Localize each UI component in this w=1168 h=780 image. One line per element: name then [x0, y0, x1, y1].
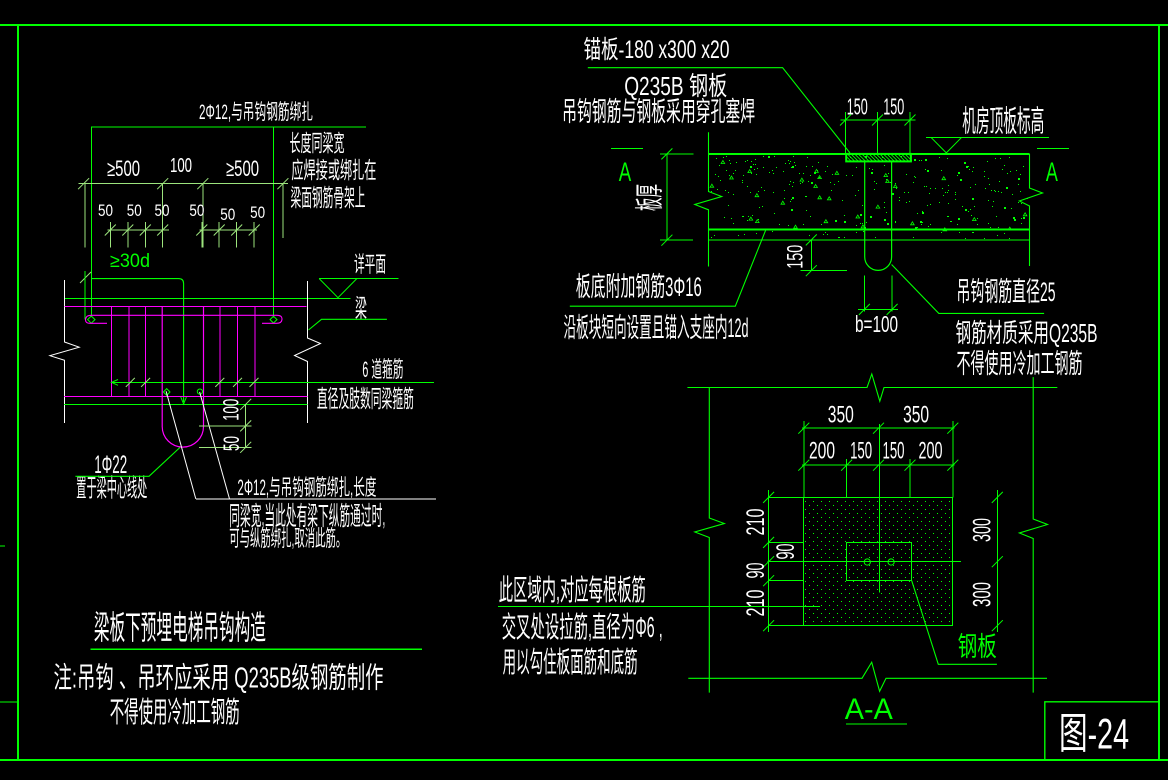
extension line — [845, 112, 847, 154]
svg-text:100: 100 — [219, 399, 244, 421]
svg-text:350: 350 — [903, 402, 929, 429]
svg-text:板厚: 板厚 — [633, 184, 666, 211]
leader tick — [141, 378, 150, 387]
white leader line 1 — [166, 391, 196, 499]
hook dim tick — [240, 399, 251, 410]
beam bottom longitudinal bar — [64, 395, 307, 397]
dimension tick — [249, 225, 260, 236]
leader line 6道箍筋 — [112, 381, 435, 383]
dim tick — [806, 234, 817, 245]
hook 1Φ22 U-shape — [162, 306, 203, 447]
extension line — [84, 184, 86, 248]
dim tick — [887, 304, 898, 315]
svg-text:沿板块短向设置且锚入支座内12d: 沿板块短向设置且锚入支座内12d — [564, 313, 749, 343]
leader tick — [233, 378, 242, 387]
stirrup leg — [111, 306, 113, 396]
svg-text:200: 200 — [919, 438, 943, 465]
plan square top edge ext — [769, 496, 804, 498]
extension line — [202, 184, 204, 248]
svg-text:210: 210 — [742, 590, 770, 617]
drawing frame top border — [0, 24, 1168, 26]
svg-text:90: 90 — [772, 544, 800, 560]
section symbol line — [319, 278, 398, 280]
svg-text:150: 150 — [883, 94, 904, 120]
beam top line (slab soffit) — [64, 297, 351, 299]
slab thickness tick line top — [660, 153, 693, 155]
beam left edge white — [50, 280, 79, 423]
title underline — [90, 648, 422, 650]
embed dim line — [810, 240, 812, 271]
dim tick — [905, 460, 916, 471]
dim tick — [841, 460, 852, 471]
svg-text:50: 50 — [98, 201, 113, 220]
dimension tick — [122, 225, 133, 236]
extension line — [952, 421, 954, 497]
svg-text:150: 150 — [883, 438, 905, 465]
plan right dim line — [996, 490, 998, 632]
svg-text:长度同梁宽: 长度同梁宽 — [290, 130, 345, 156]
dim tick — [798, 423, 809, 434]
b dim extension 2 — [891, 276, 893, 312]
drawing frame right border — [1158, 25, 1160, 760]
leader 1Φ22 — [75, 448, 179, 477]
svg-text:不得使用冷加工钢筋: 不得使用冷加工钢筋 — [110, 696, 240, 729]
added rebar line 3Φ16 — [709, 239, 1030, 241]
plan dim line 350-350 — [802, 427, 954, 429]
concrete speckle texture — [710, 156, 1028, 239]
section mark line right — [1037, 147, 1069, 149]
dim line 150-150 — [840, 119, 915, 121]
leader tick — [215, 378, 224, 387]
svg-text:注:吊钩 、吊环应采用 Q235B级钢筋制作: 注:吊钩 、吊环应采用 Q235B级钢筋制作 — [54, 662, 384, 695]
leader line 此区域内 — [498, 606, 820, 608]
svg-text:可与纵筋绑扎,取消此筋。: 可与纵筋绑扎,取消此筋。 — [229, 526, 346, 551]
svg-text:50: 50 — [127, 201, 142, 220]
dim tick — [763, 620, 774, 631]
svg-text:300: 300 — [968, 518, 996, 542]
svg-text:150: 150 — [782, 245, 807, 269]
slab right edge with break — [1019, 154, 1042, 266]
dim tick — [661, 148, 672, 159]
beam right edge white — [295, 281, 321, 423]
svg-text:50: 50 — [250, 203, 265, 222]
b dim extension 1 — [863, 276, 865, 312]
dimension line 50x3 right — [200, 229, 257, 231]
dim tick — [859, 304, 870, 315]
dimension line ≥500/100/≥500 — [79, 183, 289, 185]
extension line — [109, 222, 111, 248]
dim tick — [763, 556, 774, 567]
plan centre vertical axis — [878, 424, 880, 592]
stirrup leg — [128, 306, 130, 396]
slab top line — [709, 153, 1030, 155]
right hook bar end diamond — [270, 316, 277, 323]
plan dim line 200-150-150-200 — [802, 464, 954, 466]
svg-text:此区域内,对应每根板筋: 此区域内,对应每根板筋 — [499, 574, 646, 607]
short bar extension — [84, 271, 86, 320]
tick at bar start — [80, 272, 91, 283]
dim tick — [947, 460, 958, 471]
dim tick — [763, 492, 774, 503]
plan top break line — [687, 374, 1057, 401]
hook vertical dim line — [245, 404, 247, 447]
svg-text:不得使用冷加工钢筋: 不得使用冷加工钢筋 — [957, 349, 1083, 379]
marker diamond on hook leg — [163, 389, 170, 396]
slab thickness tick line bottom — [660, 239, 693, 241]
inner anchor plate rect — [847, 543, 912, 581]
dimension tick — [78, 178, 89, 189]
dimension tick — [231, 225, 242, 236]
dim tick — [763, 537, 774, 548]
dimension tick — [196, 225, 207, 236]
svg-text:直径及肢数同梁箍筋: 直径及肢数同梁箍筋 — [317, 386, 414, 413]
svg-text:梁面钢筋骨架上: 梁面钢筋骨架上 — [291, 185, 366, 212]
svg-text:2Φ12,与吊钩钢筋绑扎,长度: 2Φ12,与吊钩钢筋绑扎,长度 — [237, 475, 376, 500]
dimension tick — [197, 178, 208, 189]
svg-text:≥30d: ≥30d — [110, 251, 150, 272]
extension line — [162, 184, 164, 248]
title block divider at left edge — [0, 701, 18, 703]
leader 钢板 — [912, 581, 997, 665]
dimension line 50x3 left — [107, 229, 169, 231]
extension line — [909, 459, 911, 497]
extension line — [127, 222, 129, 248]
arrowhead on bar — [181, 397, 187, 405]
left edge tick — [0, 545, 5, 547]
extension line — [282, 184, 284, 238]
dimension tick — [157, 225, 168, 236]
hook dim extension line 1 — [199, 425, 252, 427]
dim tick — [947, 423, 958, 434]
dim tick — [872, 115, 883, 126]
inner rect top ext — [769, 541, 804, 543]
plan left dim line — [768, 490, 770, 632]
dimension tick — [214, 225, 225, 236]
svg-text:50: 50 — [220, 205, 235, 224]
svg-text:置于梁中心线处: 置于梁中心线处 — [76, 475, 147, 503]
svg-text:6 道箍筋: 6 道箍筋 — [362, 357, 403, 382]
svg-text:应焊接或绑扎在: 应焊接或绑扎在 — [291, 157, 376, 183]
plan bottom break line — [688, 662, 1047, 691]
dimension tick — [140, 225, 151, 236]
anchor plate hatch — [846, 154, 912, 162]
dim tick — [992, 556, 1003, 567]
dim tick — [798, 460, 809, 471]
A-A underline — [846, 723, 907, 725]
extension line — [877, 112, 879, 154]
svg-text:50: 50 — [155, 201, 170, 220]
svg-text:≥500: ≥500 — [226, 156, 259, 181]
svg-text:梁板下预埋电梯吊钩构造: 梁板下预埋电梯吊钩构造 — [94, 609, 266, 646]
section symbol triangle — [319, 279, 357, 298]
plan centre horizontal axis — [768, 561, 961, 563]
section mark line left — [611, 147, 643, 149]
dimension tick — [277, 178, 288, 189]
svg-text:机房顶板标高: 机房顶板标高 — [962, 106, 1044, 139]
extension line — [236, 222, 238, 248]
left hook bar vertical — [90, 127, 92, 317]
svg-text:详平面: 详平面 — [354, 252, 386, 277]
svg-text:吊钩钢筋与钢板采用穿孔塞焊: 吊钩钢筋与钢板采用穿孔塞焊 — [562, 97, 755, 127]
svg-text:100: 100 — [170, 155, 192, 177]
svg-text:吊钩钢筋直径25: 吊钩钢筋直径25 — [957, 277, 1056, 307]
leader line under 2Φ12 label — [91, 126, 366, 128]
beam top longitudinal bar — [65, 305, 307, 307]
leader 锚板 — [588, 68, 850, 153]
svg-text:50: 50 — [189, 201, 204, 220]
leader line — [892, 265, 1045, 314]
leader line — [570, 230, 766, 306]
plan square bottom edge ext — [769, 625, 804, 627]
svg-text:图-24: 图-24 — [1059, 711, 1129, 759]
tie bar with end hooks — [86, 315, 282, 323]
svg-text:钢筋材质采用Q235B: 钢筋材质采用Q235B — [956, 318, 1098, 348]
transverse bar 2Φ12 top run — [91, 279, 184, 402]
drawing frame left border — [17, 25, 19, 760]
leader 梁 — [309, 319, 387, 330]
slab bottom line — [709, 229, 1030, 231]
svg-text:板底附加钢筋3Φ16: 板底附加钢筋3Φ16 — [576, 272, 702, 302]
left hook bar end diamond — [88, 316, 95, 323]
dim tick — [840, 115, 851, 126]
steel plate square (dotted) — [804, 498, 953, 626]
hook dim extension line 2 — [199, 446, 252, 448]
svg-text:≥500: ≥500 — [107, 156, 140, 181]
embed dim extension — [801, 270, 847, 272]
dim tick — [806, 265, 817, 276]
svg-text:A-A: A-A — [845, 693, 893, 726]
svg-text:交叉处设拉筋,直径为Φ6 ,: 交叉处设拉筋,直径为Φ6 , — [502, 611, 663, 644]
svg-text:150: 150 — [850, 438, 872, 465]
svg-text:300: 300 — [968, 582, 996, 607]
dim tick — [992, 620, 1003, 631]
stirrup leg — [145, 306, 147, 396]
svg-text:2Φ12,与吊钩钢筋绑扎: 2Φ12,与吊钩钢筋绑扎 — [199, 101, 313, 124]
svg-text:锚板-180 x300 x20: 锚板-180 x300 x20 — [584, 36, 730, 64]
stirrup leg — [254, 306, 256, 396]
dim tick — [763, 575, 774, 586]
extension line — [909, 112, 911, 154]
slab left edge with break — [695, 132, 722, 266]
svg-text:210: 210 — [742, 509, 770, 536]
hook dim tick — [240, 420, 251, 431]
svg-text:50: 50 — [219, 436, 244, 451]
svg-text:A: A — [1046, 157, 1058, 187]
right hook bar vertical — [273, 127, 275, 317]
stirrup leg — [219, 306, 221, 396]
svg-text:A: A — [619, 157, 632, 187]
plan left break line — [695, 388, 725, 693]
hook dim tick — [240, 442, 251, 453]
dim tick — [992, 492, 1003, 503]
white leader line 2 — [200, 392, 230, 499]
hook bar circle left — [864, 559, 870, 565]
dim tick — [661, 235, 672, 246]
plan right break line — [1019, 377, 1047, 692]
extension line — [803, 421, 805, 497]
level triangle — [931, 138, 961, 153]
hook bar U below slab — [865, 161, 892, 270]
slab thickness dim line — [666, 154, 668, 240]
b dim line — [858, 308, 898, 310]
svg-text:b=100: b=100 — [855, 311, 898, 337]
extension line — [253, 222, 255, 248]
extension line — [218, 222, 220, 248]
svg-text:350: 350 — [828, 402, 854, 429]
leader tick — [250, 378, 259, 387]
beam bottom line — [64, 403, 307, 405]
svg-text:用以勾住板面筋和底筋: 用以勾住板面筋和底筋 — [503, 646, 638, 679]
dimension tick — [105, 225, 116, 236]
white leader underline — [196, 498, 436, 500]
inner rect bottom ext — [769, 580, 804, 582]
dimension tick — [157, 178, 168, 189]
hook bar circle right — [888, 559, 894, 565]
title block box — [1045, 702, 1159, 760]
svg-text:90: 90 — [742, 563, 770, 579]
extension line — [846, 459, 848, 497]
dim tick — [905, 115, 916, 126]
marker circle on hook leg — [197, 389, 202, 394]
svg-text:钢板: 钢板 — [958, 632, 997, 662]
level line — [926, 137, 1049, 139]
anchor plate — [846, 154, 911, 162]
extension line — [144, 222, 146, 248]
extension line — [201, 222, 203, 248]
dim tick — [873, 460, 884, 471]
leader arrowhead — [112, 380, 119, 386]
svg-text:200: 200 — [809, 438, 835, 465]
stirrup leg — [237, 306, 239, 396]
leader tick — [126, 378, 135, 387]
drawing frame bottom border — [0, 759, 1168, 761]
dim tick — [873, 423, 884, 434]
